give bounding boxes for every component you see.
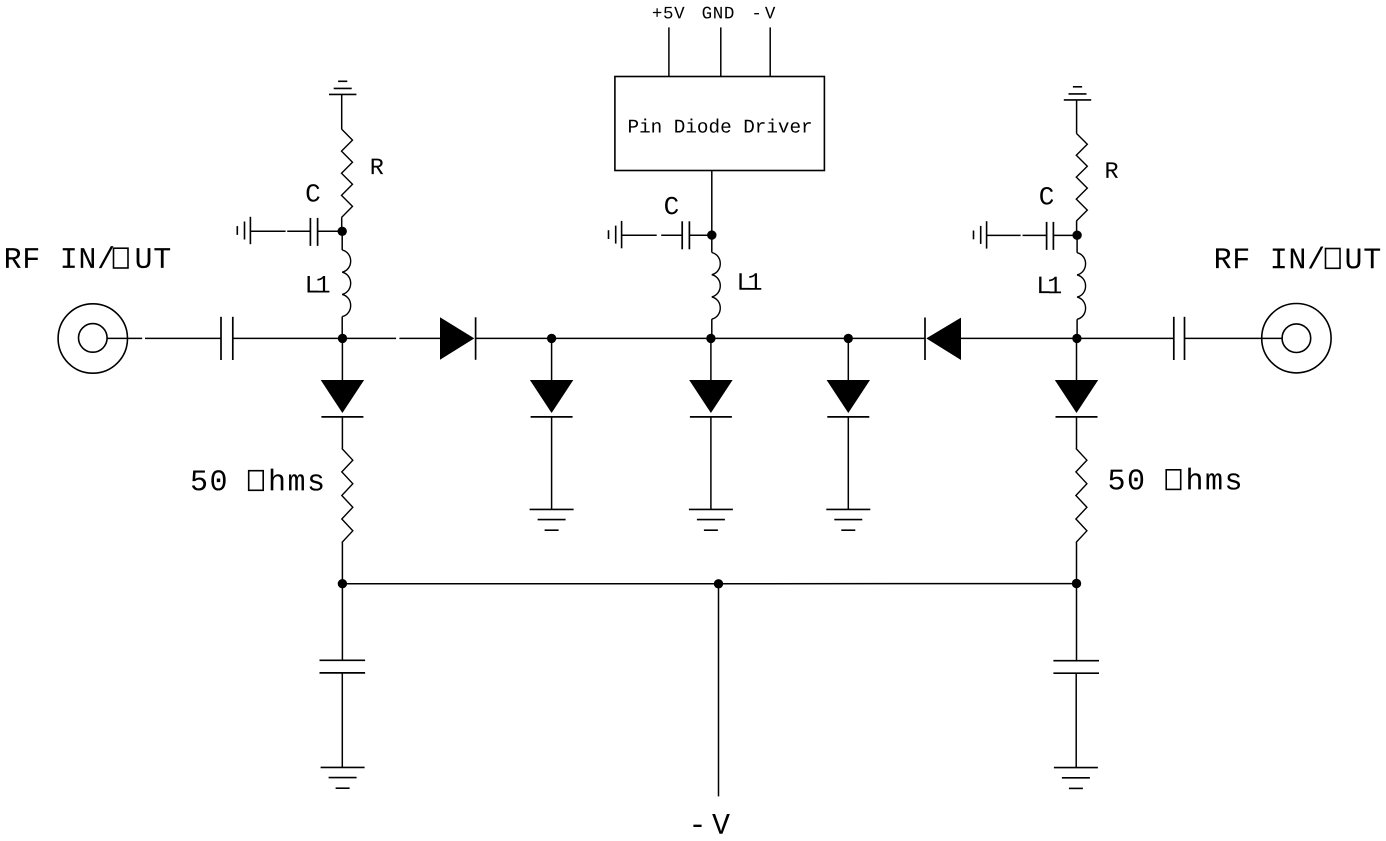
wire +5V to driver box <box>668 27 670 76</box>
ground (rotated, center C bypass) <box>621 221 623 248</box>
node G (left rail node) <box>338 579 347 588</box>
connector J2 outer circle <box>1262 304 1331 373</box>
resistor 50 Ohms (left) <box>342 448 353 542</box>
capacitor C6 (bypass, right) <box>1046 222 1048 250</box>
wire D4 to ground <box>710 417 712 510</box>
ground (D4) <box>689 508 733 510</box>
svg-text:+5V: +5V <box>652 4 685 24</box>
node B (center main node) <box>706 334 715 343</box>
svg-text:L1: L1 <box>305 272 330 301</box>
ground (D5) <box>826 508 870 510</box>
wire D7 to R 50 Ohms (right) <box>1076 417 1078 449</box>
wire -V to driver box <box>769 27 771 76</box>
capacitor C1 (bypass, left) <box>309 218 311 246</box>
svg-text:R: R <box>370 155 384 182</box>
capacitor C3 (bypass, center) <box>681 221 683 249</box>
diode D5 (shunt) <box>827 380 870 413</box>
ground (top right, small) <box>1064 99 1091 101</box>
wire ground to R (right) <box>1076 100 1078 133</box>
diode D2 (series, points left) <box>924 318 926 361</box>
wire 50 Ohms to node H <box>1076 543 1078 584</box>
node A (left main node) <box>338 334 347 343</box>
node I (rail center) <box>714 579 723 588</box>
diode D1 (series, points right) <box>440 317 474 360</box>
wire node A to D6 <box>341 338 343 380</box>
svg-text:Pin Diode Driver: Pin Diode Driver <box>627 117 812 139</box>
node J (right bias node) <box>1072 231 1081 240</box>
wire node to D3 <box>551 338 553 380</box>
wire node D to node B <box>552 337 711 339</box>
wire C3 to node B2 <box>689 234 711 236</box>
diode D6 (shunt, left) <box>321 380 364 413</box>
square O glyph (right RF IN/OUT) <box>1326 249 1341 269</box>
wire ground to R <box>341 94 343 129</box>
wire ground to C3 <box>622 234 657 236</box>
svg-text:C: C <box>305 180 321 210</box>
wire node B2 to L1 (center) <box>711 235 713 252</box>
svg-text:RF IN/ UT: RF IN/ UT <box>1214 244 1382 278</box>
wire R to node C <box>341 218 343 232</box>
ground (D3) <box>530 508 574 510</box>
wire node to D4 <box>710 338 712 380</box>
bottom -V rail wire <box>342 583 718 585</box>
inductor L1 (center) <box>712 253 720 320</box>
wire ground to C1 <box>250 230 285 232</box>
ground (bottom left) <box>321 766 365 768</box>
wire C1 to node C <box>318 230 343 232</box>
wire D3 to ground <box>551 417 553 510</box>
wire L1 to node F <box>1076 319 1078 338</box>
wire node E to D2 <box>848 337 925 339</box>
svg-text:-V: -V <box>751 4 778 24</box>
capacitor C2 (series, left) <box>220 317 222 360</box>
wire node to D5 <box>847 338 849 380</box>
wire node I to -V <box>718 584 720 797</box>
ground (rotated, right C bypass) <box>986 221 988 248</box>
diode D7 (shunt, right) <box>1055 380 1098 413</box>
wire node F to C7 <box>1077 337 1174 339</box>
wire C7 to connector J2 <box>1185 337 1283 339</box>
wire L1 to node B <box>711 319 713 338</box>
square O glyph (right 50 Ohms) <box>1166 470 1181 490</box>
ground (top left, small) <box>329 93 356 95</box>
node C (left bias node) <box>338 227 347 236</box>
wire node H to C5 <box>1076 584 1078 661</box>
svg-text:R: R <box>1104 159 1118 186</box>
wire J1 to C2 <box>107 337 142 339</box>
resistor R (right) <box>1076 133 1087 221</box>
wire node A to D1 <box>343 337 397 339</box>
connector J1 inner circle <box>79 324 108 353</box>
svg-text:L1: L1 <box>736 269 761 298</box>
resistor R (left) <box>342 129 353 218</box>
svg-text:L1: L1 <box>1036 272 1061 301</box>
ground (rotated, left C bypass) <box>249 217 251 244</box>
node D <box>547 334 556 343</box>
capacitor C5 (bottom right) <box>1053 660 1099 662</box>
wire D1 to node D <box>476 337 552 339</box>
wire node J to L1 (right) <box>1076 235 1078 253</box>
wire node G to C4 <box>341 584 343 661</box>
wire R to node J <box>1076 221 1078 235</box>
svg-text:C: C <box>664 192 680 222</box>
wire C4 to ground <box>341 673 343 768</box>
connector J2 inner circle <box>1282 324 1311 353</box>
wire D2 to node F <box>961 337 1077 339</box>
svg-text:GND: GND <box>702 4 735 24</box>
ground (bottom right) <box>1054 767 1098 769</box>
svg-text:RF IN/ UT: RF IN/ UT <box>4 244 172 278</box>
node F (right main node) <box>1072 334 1081 343</box>
connector J1 outer circle <box>58 304 127 373</box>
diode D3 (shunt) <box>530 380 573 413</box>
svg-text:C: C <box>1039 182 1055 212</box>
resistor 50 Ohms (right) <box>1076 448 1087 542</box>
capacitor C7 (series, right) <box>1173 317 1175 360</box>
diode D4 (shunt) <box>689 380 732 413</box>
wire 50 Ohms to node G <box>341 543 343 584</box>
driver box U1 <box>615 77 825 171</box>
wire ground to C6 <box>987 234 1021 236</box>
capacitor C4 (bottom left) <box>320 659 366 661</box>
square O glyph (left 50 Ohms) <box>249 471 264 491</box>
wire GND to driver box <box>720 27 722 76</box>
wire C6 to node J <box>1053 234 1077 236</box>
square O glyph (left RF IN/OUT) <box>114 248 129 268</box>
svg-text:-V: -V <box>688 810 735 841</box>
wire node F to D7 <box>1076 338 1078 380</box>
wire C5 to ground <box>1075 673 1077 767</box>
node E <box>844 334 853 343</box>
wire driver box to node B <box>711 171 713 236</box>
node B2 (driver bias node) <box>707 230 716 239</box>
wire C2 to node A <box>233 337 343 339</box>
inductor L1 (left) wire from node C <box>341 231 343 250</box>
node H (right rail node) <box>1072 579 1081 588</box>
wire D6 to R 50 Ohms (left) <box>341 417 343 449</box>
wire node B to node E <box>711 337 848 339</box>
wire L1 to node A <box>341 317 343 339</box>
wire D5 to ground <box>847 417 849 510</box>
inductor L1 (left) <box>342 250 350 317</box>
inductor L1 (right) <box>1077 253 1085 320</box>
